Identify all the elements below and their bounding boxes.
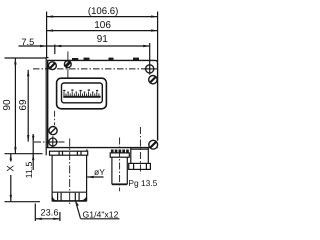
tab 1 on top edge: [84, 58, 90, 61]
dimension line 106: [47, 29, 158, 31]
test valve centerline (dash-dot): [119, 138, 121, 192]
dimension line 90: [14, 58, 16, 154]
scale number smudges: [63, 89, 98, 92]
svg-text:11.5: 11.5: [24, 162, 34, 179]
Pg gland upper block: [131, 148, 149, 163]
svg-text:23.6: 23.6: [41, 207, 59, 217]
G1/4 leader line: [75, 200, 119, 219]
dim extension line 91 right (x=149.7): [149, 43, 151, 75]
vertical centerline of adjustment screw S2: [67, 51, 69, 78]
Pg gland nut: [129, 163, 151, 169]
svg-text:106: 106: [94, 20, 111, 31]
screw top-right corner: [149, 76, 157, 84]
scale tick marks: [64, 91, 99, 96]
svg-text:(106.6): (106.6): [88, 6, 118, 17]
screw bottom-left (ring with slot): [49, 127, 57, 135]
bracket left edge: [45, 58, 47, 156]
screw S2 (range adjustment): [64, 61, 71, 68]
dimension line 7.5 (tail + arrow): [19, 45, 55, 47]
dimension line 69: [27, 70, 29, 142]
test valve body: [112, 157, 127, 184]
tab 0 on top edge: [72, 58, 78, 61]
horizontal centerline bottom screw row (dash-dot): [34, 141, 65, 143]
test valve knurled cap: [111, 150, 129, 153]
dim extension line left (x=46.6 top): [46, 12, 48, 58]
svg-text:69: 69: [18, 99, 29, 111]
svg-text:Pg 13.5: Pg 13.5: [128, 178, 157, 188]
dimension line (106.6): [47, 15, 158, 17]
screw bottom-right corner: [149, 140, 158, 149]
dimension line 91: [55, 45, 150, 47]
scale window outer frame: [57, 78, 107, 109]
dim extension line 7.5 (x=54.8): [54, 45, 56, 55]
øY leader arrow: [87, 176, 103, 178]
svg-text:90: 90: [2, 99, 13, 111]
pressure connection flange: [50, 149, 88, 155]
tab 2 on top edge: [109, 58, 114, 61]
extension line y=201.7: [5, 201, 41, 203]
svg-text:G1/4"x12: G1/4"x12: [83, 209, 119, 219]
bracket top edge: [46, 57, 49, 59]
body outline: [46, 60, 157, 147]
scale window inner frame: [62, 83, 103, 103]
svg-text:X: X: [6, 165, 17, 172]
dim extension line right (x=157.6 top): [157, 12, 159, 63]
Pg gland centerline (dash-dot): [139, 127, 141, 174]
pressure connection centerline (dash-dot): [69, 139, 71, 206]
svg-text:91: 91: [97, 34, 109, 45]
dimension line 23.6: [35, 218, 60, 220]
mounting hole crosshair bottom-left: [47, 136, 59, 148]
svg-text:7.5: 7.5: [21, 37, 34, 47]
screw S1 top-left: [49, 62, 57, 70]
G1/4 threaded stub (hex): [52, 192, 87, 201]
svg-text:øY: øY: [94, 167, 105, 177]
extension line y=153.7: [5, 153, 43, 155]
mounting hole crosshair top-right: [144, 65, 156, 73]
horizontal centerline top screw row (dash-dot): [33, 68, 157, 70]
dimension 23.6 extension line right: [59, 212, 61, 221]
dimension 23.6 extension line left: [34, 204, 36, 222]
tab 3 on top edge: [133, 58, 139, 61]
bracket top extension line (y=58): [5, 57, 47, 59]
test valve cap band: [110, 153, 129, 157]
left mounting column dash centerline: [54, 111, 56, 126]
pressure connection cylinder: [52, 155, 87, 192]
scale baseline band: [63, 96, 100, 98]
dimension 11.5 (outside arrows): [32, 134, 34, 170]
dimension line X: [10, 154, 12, 202]
